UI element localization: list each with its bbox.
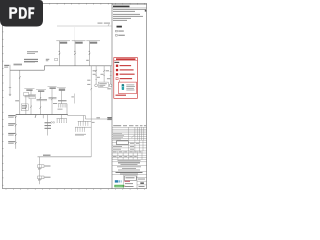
DB tap 2 breaker xyxy=(15,124,17,126)
riser meter text xyxy=(22,104,27,107)
long drop tag 2 xyxy=(87,84,90,85)
panel feeder E wire xyxy=(25,93,27,115)
note item 1 icon xyxy=(116,30,118,32)
company band divider lines xyxy=(112,162,147,175)
comb group 1 bus xyxy=(58,103,67,105)
bottom section vertical dividers xyxy=(124,175,137,189)
incomer unit 3 label xyxy=(90,42,97,44)
logo teal block xyxy=(115,180,119,182)
panel feeder B breaker 1 xyxy=(40,97,42,99)
submain feeder wire xyxy=(47,115,49,136)
bottom panel 2 text xyxy=(44,177,50,178)
motor 1 circle xyxy=(95,84,98,87)
incomer unit 2 overbar xyxy=(72,40,86,42)
comb group 4 label bar xyxy=(75,133,86,136)
panel feeder C breaker xyxy=(51,98,53,100)
logo light strokes xyxy=(119,180,120,182)
right column divider xyxy=(111,3,113,188)
overbar unit D xyxy=(57,87,66,89)
DB tap 4 breaker xyxy=(15,142,17,144)
overbar unit C xyxy=(48,86,57,88)
incomer unit 2 label xyxy=(75,42,82,44)
drop3 tag above bus xyxy=(86,60,89,61)
tiny meters below bus xyxy=(51,122,53,124)
right cell row lines xyxy=(137,181,147,185)
legend inner text line 1 xyxy=(126,84,134,87)
right branch stepped wire xyxy=(68,115,112,120)
comb group 2 teeth xyxy=(57,119,66,123)
drawing number text xyxy=(126,177,135,178)
logo green banner xyxy=(114,185,123,188)
right cell text xyxy=(138,178,145,181)
drawing number box xyxy=(124,176,136,181)
approval rows lines xyxy=(112,142,147,151)
upper small label xyxy=(27,51,38,52)
bottom section row line xyxy=(124,176,147,178)
distribution riser wire xyxy=(19,70,21,114)
notes panel title underline xyxy=(112,7,147,9)
notes paragraph line 6 xyxy=(113,19,127,22)
comb group 1 teeth xyxy=(58,104,66,107)
riser meter box xyxy=(21,104,28,111)
leader tick xyxy=(71,96,74,97)
sheet frame bottom border xyxy=(2,188,146,190)
feeder tag a2 xyxy=(93,74,96,75)
notes paragraph line 3 xyxy=(113,13,140,16)
comb group 1 label xyxy=(58,100,67,101)
spare feeder wire xyxy=(42,115,44,119)
main bus upper xyxy=(44,65,111,67)
boundary arrow xyxy=(108,24,109,26)
legend row 1 text xyxy=(120,65,132,66)
legend inner text line 3 xyxy=(126,87,134,90)
ruler ticks top edge xyxy=(6,3,145,4)
submain label 1 xyxy=(45,122,52,123)
stub below bus xyxy=(35,115,37,119)
legend inner text line 2 xyxy=(126,85,135,88)
project title line 1 xyxy=(117,165,141,168)
incomer unit 1 breaker xyxy=(59,51,61,55)
legend row 2 swatch xyxy=(116,69,118,71)
revision table diagonal xyxy=(131,135,135,139)
project title line 2 xyxy=(122,167,136,170)
bottom branch label xyxy=(43,155,51,156)
revision table header text xyxy=(113,125,121,126)
panel feeder C wire xyxy=(51,88,53,114)
incomer unit 1 overbar xyxy=(56,40,70,42)
bottom panel box 2 xyxy=(38,176,44,179)
main bus lower xyxy=(10,69,44,71)
revision table horizontal lines xyxy=(112,127,147,140)
comb group 3 feed xyxy=(83,116,85,122)
long drop tag 1 xyxy=(87,80,90,81)
legend row 4 text xyxy=(120,78,133,79)
info rows vertical lines xyxy=(118,151,142,160)
comb group 2 dots xyxy=(56,121,59,124)
overbar unit A xyxy=(24,88,34,90)
comb group 2 drop xyxy=(61,115,63,119)
legend title text xyxy=(116,58,136,60)
logo banner text xyxy=(115,185,123,188)
logo red dot xyxy=(123,185,126,188)
transformer feeder breaker xyxy=(103,70,105,72)
long drop wire xyxy=(90,66,92,157)
comb group 4 bus xyxy=(75,126,91,128)
comb group 3 dots xyxy=(77,124,80,127)
incomer unit 2 breaker xyxy=(74,51,76,55)
legend box border xyxy=(114,58,138,99)
company name line 1 xyxy=(118,161,140,164)
DB tap 3 label xyxy=(8,133,15,134)
feeder tag c xyxy=(107,78,110,79)
notes paragraph line 5 xyxy=(113,17,131,20)
panel feeder A breaker xyxy=(30,106,32,108)
boundary label text b xyxy=(104,23,110,24)
top boundary line xyxy=(57,25,112,27)
legend row 2 text xyxy=(120,69,134,70)
sheet frame right border xyxy=(146,3,148,188)
DB tap 3 breaker xyxy=(15,134,17,136)
revision table vertical lines xyxy=(128,127,144,140)
PDF badge letter D xyxy=(19,7,27,19)
legend inner text line 4 xyxy=(126,89,134,92)
ruler ticks bottom edge xyxy=(6,189,145,190)
project title line 3 xyxy=(118,169,140,172)
underlined tag 2 xyxy=(37,99,48,100)
long drop breaker xyxy=(90,88,92,90)
rev label left of divider xyxy=(108,119,111,120)
motor feeder 1 wire xyxy=(95,66,97,84)
motor drop 1 ticks xyxy=(95,76,97,80)
approval rows vertical lines xyxy=(128,140,143,151)
incomer unit 1 label xyxy=(60,42,67,44)
notes panel top line xyxy=(112,3,147,5)
incomer unit 3 drop wire xyxy=(89,41,91,66)
comb group 1 dots xyxy=(57,106,60,109)
utility feeder wire xyxy=(9,65,11,96)
PDF badge xyxy=(0,0,43,27)
DB tap 4 label xyxy=(8,141,15,142)
PDF badge letter F xyxy=(28,7,34,19)
panel feeder D wire xyxy=(61,90,63,104)
sheet frame top border xyxy=(2,2,146,4)
comb group 3 bus xyxy=(78,120,92,122)
NOTE heading xyxy=(117,26,122,28)
legend row 3 swatch xyxy=(116,73,118,75)
legend connector line xyxy=(119,80,121,82)
LV bus xyxy=(16,114,68,116)
panel feeder C tag xyxy=(53,102,57,105)
equipment label box xyxy=(98,82,108,87)
info cell text xyxy=(113,151,117,154)
legend subtext xyxy=(114,62,119,63)
bus label with underline xyxy=(14,64,23,65)
legend device glyph xyxy=(122,84,124,90)
panel feeder A box xyxy=(29,95,36,99)
approval cell text xyxy=(130,142,134,145)
notes paragraph line 2 xyxy=(113,10,135,13)
legend footer text xyxy=(116,95,127,96)
panel feeder A wire xyxy=(30,90,32,114)
motor drop 2 ticks xyxy=(103,72,111,76)
bottom panel box 1 xyxy=(38,165,44,168)
legend device glyph cap xyxy=(122,84,124,85)
DB tap 2 label xyxy=(8,123,15,124)
bottom drop wire xyxy=(39,157,41,184)
bus step wire xyxy=(43,66,45,70)
comb group 4 teeth xyxy=(76,127,85,131)
motor feeder 2 wire xyxy=(110,66,112,84)
right sub label xyxy=(107,88,111,89)
comb group 2 bus xyxy=(57,118,68,120)
submain label 3 xyxy=(45,128,52,129)
middle cell pink text xyxy=(125,181,131,182)
leader line mid xyxy=(74,94,76,104)
underlined tag 1 xyxy=(25,95,36,96)
notes paragraph line 4 xyxy=(113,15,143,18)
feeder tag a xyxy=(93,70,96,71)
PDF badge letter P xyxy=(9,7,17,19)
demarcation dashed line xyxy=(74,28,76,41)
revision table cell text xyxy=(113,132,122,135)
comb group 3 teeth xyxy=(78,121,88,125)
note item 1 text xyxy=(118,31,124,32)
info rows lines xyxy=(112,153,147,160)
comb group 1 under-label xyxy=(58,108,63,111)
feeder label xyxy=(4,65,9,66)
legend row 4 swatch xyxy=(116,78,118,80)
notes panel title text xyxy=(113,6,130,8)
motor feeder 1 breaker xyxy=(95,70,97,72)
equipment label text xyxy=(99,82,107,85)
company name line 2 xyxy=(121,163,138,166)
note item 2 icon xyxy=(116,34,118,36)
drawing title line 1 xyxy=(116,171,143,174)
step glyph box xyxy=(55,58,58,61)
right branch label above xyxy=(96,117,100,118)
feeder tag b2 xyxy=(101,74,104,75)
legend row 3 text xyxy=(120,74,135,75)
DB tap 1 label xyxy=(8,115,15,116)
panel feeder E box xyxy=(24,93,29,96)
note item 2 text xyxy=(118,35,125,36)
submain label 2 xyxy=(45,125,52,126)
feeder end ticks xyxy=(9,94,11,95)
right branch end label xyxy=(107,117,112,118)
step tag xyxy=(46,59,50,60)
transformer feeder wire xyxy=(103,66,105,82)
incomer unit 1 drop wire xyxy=(59,41,61,66)
panel feeder B breaker 2 xyxy=(40,107,42,109)
riser breaker xyxy=(19,76,21,78)
overbar unit B xyxy=(36,89,46,91)
address text xyxy=(118,159,141,162)
underlined tag 3 xyxy=(49,97,57,98)
boundary label text a xyxy=(98,23,103,24)
ruler ticks left edge xyxy=(2,10,3,185)
middle cell text lines xyxy=(125,182,133,185)
incomer unit 3 breaker xyxy=(89,51,91,55)
legend inner box xyxy=(119,82,137,94)
bottom branch wire xyxy=(38,156,92,158)
legend row 1 swatch xyxy=(116,65,118,67)
feeder mid tick xyxy=(9,86,11,88)
notes paragraph line 1 xyxy=(113,8,146,11)
panel feeder B wire xyxy=(39,91,41,114)
right cell lower text xyxy=(139,185,145,188)
comb group 3 tag xyxy=(92,121,95,124)
DB riser wire xyxy=(15,115,17,149)
bottom panel 1 text xyxy=(44,166,50,167)
sheet size A3 text xyxy=(140,182,144,184)
riser side tag xyxy=(15,100,19,101)
motor 2 circle xyxy=(109,84,112,87)
feeder tag b xyxy=(106,70,109,71)
legend title underline xyxy=(114,60,138,62)
drawing title line 2 xyxy=(120,173,138,176)
panel feeder E breaker xyxy=(25,106,27,108)
DB tap 1 breaker xyxy=(15,116,17,118)
comb group 1 drop xyxy=(66,104,68,115)
signature box xyxy=(117,141,129,145)
incomer unit 3 overbar xyxy=(86,40,100,42)
kiosk label two lines xyxy=(24,59,38,60)
feeder tag a3 xyxy=(97,77,100,78)
sheet frame left border xyxy=(1,3,3,188)
incomer unit 2 drop wire xyxy=(74,41,76,66)
comb group 4 dots xyxy=(74,130,77,133)
